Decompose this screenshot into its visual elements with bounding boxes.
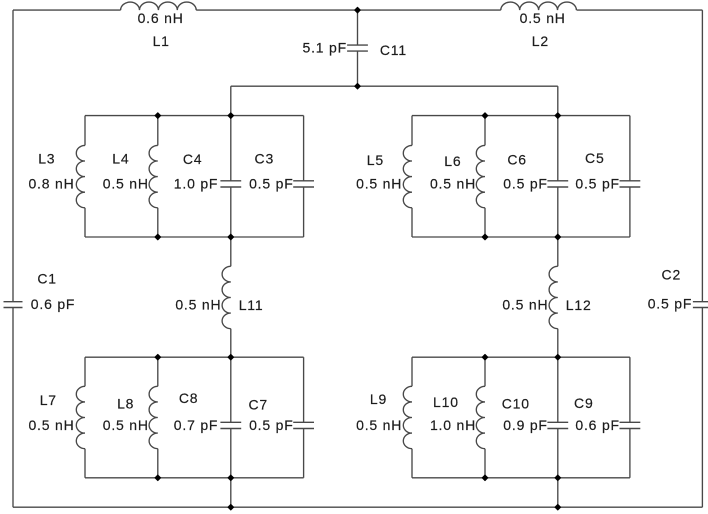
wire L10 top stub [484, 357, 486, 386]
capacitor C11 [347, 45, 368, 51]
junction upper-right tank top / L6 [482, 113, 488, 119]
wire left edge upper (input side) [12, 10, 14, 302]
wire left spine: C8 to bottom rail [230, 429, 232, 508]
capacitor C8 [220, 422, 241, 428]
wire L4 top stub [157, 116, 159, 146]
wire L9 bottom stub [411, 449, 413, 478]
svg-text:5.1 pF: 5.1 pF [303, 39, 348, 55]
wire right spine: C10 to bottom rail [557, 429, 559, 508]
svg-text:0.5 pF: 0.5 pF [503, 175, 548, 191]
wire upper-right tank bottom rail [412, 236, 630, 238]
wire second rail (node between C11 and tanks) [231, 85, 558, 87]
inductor L10 [476, 386, 485, 448]
svg-text:0.5 nH: 0.5 nH [103, 417, 149, 433]
wire L10 bottom stub [484, 449, 486, 478]
junction upper-left tank bottom / L4 [155, 234, 161, 240]
wire L6 bottom stub [484, 208, 486, 237]
wire L5 top stub [411, 116, 413, 146]
capacitor C10 [547, 422, 568, 428]
junction second rail / C11 [355, 83, 361, 89]
svg-text:1.0 nH: 1.0 nH [430, 417, 476, 433]
svg-text:C10: C10 [502, 395, 530, 411]
junction upper-right tank top / spine [555, 113, 561, 119]
junction lower-right tank bottom / spine [555, 475, 561, 481]
svg-text:C1: C1 [37, 271, 57, 287]
junction upper-left tank bottom / spine [228, 234, 234, 240]
svg-text:L1: L1 [153, 33, 170, 49]
svg-text:0.5 nH: 0.5 nH [28, 417, 74, 433]
junction lower-left tank bottom / spine [228, 475, 234, 481]
wire top rail right segment [577, 9, 703, 11]
svg-text:0.5 nH: 0.5 nH [103, 175, 149, 191]
wire bottom rail [13, 506, 702, 508]
wire C3 top stub [303, 116, 305, 181]
wire L4 bottom stub [157, 208, 159, 237]
inductor L8 [149, 386, 158, 448]
capacitor C6 [547, 181, 568, 187]
svg-text:L12: L12 [566, 297, 592, 313]
junction upper-left tank top / spine [228, 113, 234, 119]
wire left spine: rail2 to C4 [230, 86, 232, 181]
svg-text:1.0 pF: 1.0 pF [174, 175, 219, 191]
wire right edge upper (output side) [701, 10, 703, 302]
junction top rail / C11 [355, 7, 361, 13]
wire upper-left tank top rail [85, 115, 304, 117]
svg-text:0.5 nH: 0.5 nH [356, 417, 402, 433]
wire L7 bottom stub [84, 449, 86, 478]
junction bottom rail / right spine [555, 504, 561, 510]
junction bottom rail / left spine [228, 504, 234, 510]
inductor L1 [121, 2, 197, 10]
wire L3 top stub [84, 116, 86, 146]
junction lower-left tank top / spine [228, 354, 234, 360]
svg-text:0.5 pF: 0.5 pF [575, 175, 620, 191]
svg-text:L5: L5 [367, 152, 384, 168]
wire left spine: L11 to C8 [230, 329, 232, 423]
wire L3 bottom stub [84, 208, 86, 237]
svg-text:0.6 pF: 0.6 pF [575, 417, 620, 433]
wire right edge lower [701, 308, 703, 508]
svg-text:L8: L8 [117, 395, 134, 411]
wire L6 top stub [484, 116, 486, 146]
wire C11 bottom stub [357, 51, 359, 86]
junction lower-right tank top / L10 [482, 354, 488, 360]
junction lower-right tank bottom / L10 [482, 475, 488, 481]
svg-text:C7: C7 [248, 396, 268, 412]
inductor L7 [76, 386, 85, 448]
svg-text:C4: C4 [183, 151, 203, 167]
capacitor C3 [293, 181, 314, 187]
svg-text:C2: C2 [662, 266, 682, 282]
junction upper-right tank bottom / spine [555, 234, 561, 240]
wire C7 top stub [303, 357, 305, 422]
svg-text:C6: C6 [507, 152, 527, 168]
svg-text:0.6 pF: 0.6 pF [31, 296, 76, 312]
capacitor C2 [693, 302, 708, 308]
svg-text:L9: L9 [370, 391, 387, 407]
capacitor C1 [4, 302, 23, 308]
capacitor C4 [220, 181, 241, 187]
inductor L6 [476, 145, 485, 207]
wire upper-right tank top rail [412, 115, 630, 117]
wire C7 bottom stub [303, 429, 305, 478]
wire right spine: rail2 to C6 [557, 86, 559, 181]
wire lower-right tank top rail [412, 356, 630, 358]
capacitor C9 [620, 422, 641, 428]
inductor L12 [549, 266, 558, 328]
svg-text:0.5 nH: 0.5 nH [520, 10, 566, 26]
inductor L2 [501, 2, 577, 10]
svg-text:0.5 pF: 0.5 pF [249, 417, 294, 433]
wire L7 top stub [84, 357, 86, 386]
svg-text:0.7 pF: 0.7 pF [174, 417, 219, 433]
svg-text:C5: C5 [585, 150, 605, 166]
junction upper-left tank top / L4 [155, 113, 161, 119]
svg-text:L3: L3 [38, 151, 55, 167]
wire right spine: C6 to L12 [557, 187, 559, 266]
svg-text:0.6 nH: 0.6 nH [138, 10, 184, 26]
inductor L3 [76, 145, 85, 207]
junction lower-left tank top / L8 [155, 354, 161, 360]
svg-text:0.5 nH: 0.5 nH [175, 297, 221, 313]
wire L5 bottom stub [411, 208, 413, 237]
svg-text:L6: L6 [444, 153, 461, 169]
junction lower-left tank bottom / L8 [155, 475, 161, 481]
wire left edge lower [12, 308, 14, 508]
svg-text:0.5 nH: 0.5 nH [430, 175, 476, 191]
svg-text:0.5 nH: 0.5 nH [356, 175, 402, 191]
wire L9 top stub [411, 357, 413, 386]
svg-text:0.5 pF: 0.5 pF [648, 296, 693, 312]
junction lower-right tank top / spine [555, 354, 561, 360]
junction upper-right tank bottom / L6 [482, 234, 488, 240]
wire upper-left tank bottom rail [85, 236, 304, 238]
wire C5 top stub [629, 116, 631, 181]
capacitor C7 [293, 422, 314, 428]
svg-text:C11: C11 [380, 42, 407, 58]
svg-text:C3: C3 [255, 151, 275, 167]
wire C11 top stub [357, 10, 359, 45]
svg-text:C8: C8 [179, 390, 199, 406]
svg-text:L10: L10 [433, 394, 459, 410]
svg-text:L11: L11 [239, 297, 264, 313]
wire left spine: C4 to L11 [230, 187, 232, 266]
inductor L4 [149, 145, 158, 207]
wire C3 bottom stub [303, 187, 305, 237]
inductor L11 [222, 266, 231, 328]
wire lower-right tank bottom rail [412, 477, 630, 479]
svg-text:L2: L2 [532, 33, 549, 49]
wire right spine: L12 to C10 [557, 329, 559, 423]
wire lower-left tank top rail [85, 356, 304, 358]
wire C9 top stub [629, 357, 631, 422]
svg-text:C9: C9 [574, 395, 594, 411]
wire lower-left tank bottom rail [85, 477, 304, 479]
svg-text:0.5 nH: 0.5 nH [502, 297, 548, 313]
svg-text:0.9 pF: 0.9 pF [503, 417, 548, 433]
inductor L9 [403, 386, 412, 448]
svg-text:L7: L7 [40, 392, 57, 408]
wire top rail left segment [13, 9, 121, 11]
capacitor C5 [620, 181, 641, 187]
svg-text:0.5 pF: 0.5 pF [249, 175, 294, 191]
wire L8 top stub [157, 357, 159, 386]
wire top rail middle segment [196, 9, 501, 11]
svg-text:0.8 nH: 0.8 nH [28, 175, 74, 191]
wire L8 bottom stub [157, 449, 159, 478]
svg-text:L4: L4 [112, 151, 129, 167]
inductor L5 [403, 145, 412, 207]
wire C5 bottom stub [629, 187, 631, 237]
wire C9 bottom stub [629, 429, 631, 478]
